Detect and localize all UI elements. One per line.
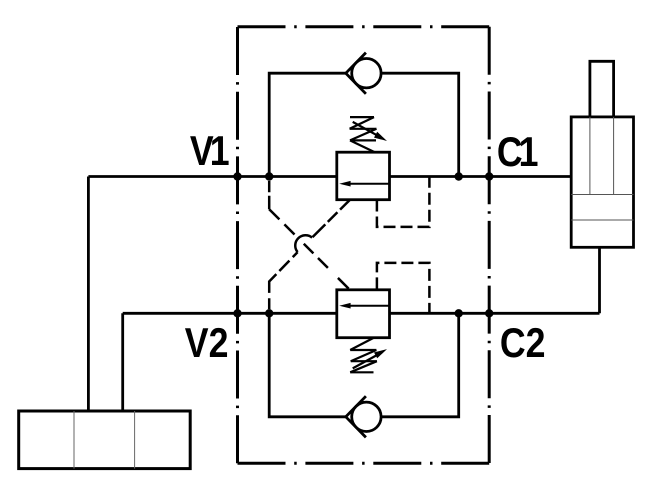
upper valve spring: [350, 117, 377, 152]
lower valve spring adjust arrow: [353, 355, 378, 369]
upper valve arrow (flow, pointing left): [348, 183, 390, 185]
lower check valve loop wire: [269, 313, 346, 417]
node upper loop left: [265, 172, 273, 180]
pilot line hop arc over crossing: [295, 235, 312, 252]
node upper loop right: [455, 172, 463, 180]
svg-text:V1: V1: [190, 128, 229, 174]
lower valve arrow (flow, pointing left): [348, 305, 390, 307]
node C1 (dot on boundary): [485, 172, 493, 180]
svg-text:V2: V2: [185, 320, 229, 366]
node C2 (dot on boundary): [485, 309, 493, 317]
wire V2 left riser: [121, 313, 124, 412]
valve enclosure boundary top (dash-dot): [238, 25, 490, 28]
pilot line dashed diagonal B lower part (crossing to V2 node): [269, 252, 297, 313]
lower valve spring chamber dashed loop: [377, 263, 430, 313]
check valve CV2 circle: [352, 402, 381, 431]
cylinder piston lines (thin): [571, 194, 633, 196]
upper valve spring chamber dashed loop: [377, 177, 430, 227]
node V1 (dot on boundary): [233, 172, 241, 180]
cylinder rod: [590, 61, 614, 117]
check valve CV1 circle: [352, 58, 381, 87]
valve enclosure boundary left (dash-dot): [236, 27, 239, 463]
wire V2 horizontal (V2 to C2): [123, 312, 600, 315]
pilot line dashed diagonal A (V1 node to lower valve): [269, 209, 349, 289]
wire V1 left riser: [87, 177, 90, 413]
actuator block divider 1: [73, 411, 75, 469]
svg-text:C2: C2: [500, 320, 546, 366]
actuator block bottom-left: [19, 411, 191, 469]
svg-text:C1: C1: [497, 129, 538, 175]
valve enclosure boundary bottom (dash-dot): [238, 462, 490, 465]
valve enclosure boundary right (dash-dot): [488, 27, 491, 463]
node lower loop left: [265, 309, 273, 317]
node lower loop right: [455, 309, 463, 317]
lower valve spring: [350, 338, 377, 373]
counterbalance valve upper body: [337, 152, 390, 200]
node V2 (dot on boundary): [233, 309, 241, 317]
check valve CV1 seat: [346, 53, 366, 94]
upper valve spring adjust arrow: [353, 122, 378, 136]
check valve CV2 seat: [346, 396, 366, 437]
wire V1 horizontal (V1 to C1 to cylinder): [88, 175, 571, 178]
cylinder rod inside body (thin): [589, 117, 591, 195]
cylinder body: [571, 117, 633, 247]
counterbalance valve lower body: [337, 290, 390, 338]
wire cylinder bottom to C2: [598, 247, 601, 313]
upper check valve loop wire: [269, 73, 346, 176]
pilot line dashed vertical below V1 node: [268, 181, 271, 209]
actuator block divider 2: [134, 411, 136, 469]
pilot line dashed diagonal B upper part (upper valve to crossing): [312, 200, 350, 238]
